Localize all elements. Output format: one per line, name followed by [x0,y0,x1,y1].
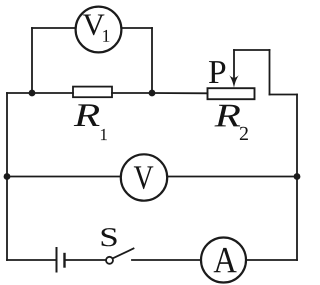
wiper arrow of R2 [229,50,239,88]
wire: mid bus left of V [7,176,121,178]
wire: V1 branch left vertical [31,28,33,93]
ammeter A [201,238,246,283]
wire: left rail [6,93,8,260]
label R1 [74,104,107,140]
switch S [106,249,134,264]
wire: switch to ammeter [132,259,201,261]
battery cell [57,248,65,272]
wire: battery to switch [65,259,107,261]
wire: V1 branch right vertical [151,28,153,93]
wire: right rail [296,95,298,261]
wire: ammeter to right rail [247,259,298,261]
node: junction dot mid-bus left [4,173,11,180]
wire: top bus, left corner to R1 [7,92,73,94]
voltmeter V [121,154,167,200]
wire: wiper right vertical [269,50,271,95]
wire: wiper to right rail [270,94,298,96]
resistor R1 [73,87,112,98]
wire: mid bus right of V [167,176,297,178]
wire: top bus, junction to R2 [152,92,208,94]
node: junction dot mid-bus right [294,173,301,180]
label R2 [214,105,247,140]
potentiometer R2 [208,88,255,99]
wire: V1 branch top-left horizontal [32,27,76,29]
label P [209,61,225,83]
wire: V1 branch top-right horizontal [122,27,153,29]
wire: wiper top horizontal [234,49,270,51]
label S [102,228,117,246]
node: junction dot left of R1 (V1 tap) [29,90,36,97]
voltmeter V1 [76,7,122,53]
node: junction dot right of R1 [149,90,156,97]
wire: bottom bus, left rail to battery [7,259,57,261]
wire: top bus, R1 to junction [112,92,152,94]
